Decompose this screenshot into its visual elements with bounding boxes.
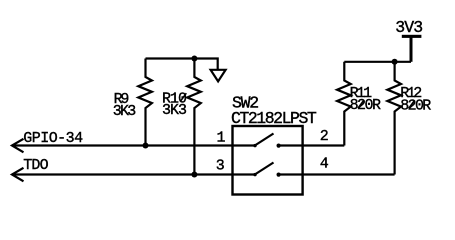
svg-text:3: 3 [216, 158, 225, 175]
svg-text:GPIO-34: GPIO-34 [23, 130, 83, 147]
svg-text:4: 4 [320, 156, 329, 173]
svg-text:3K3: 3K3 [162, 102, 187, 119]
svg-text:3V3: 3V3 [395, 18, 423, 37]
svg-text:CT2182LPST: CT2182LPST [231, 109, 317, 128]
svg-text:820R: 820R [350, 97, 381, 114]
svg-text:820R: 820R [400, 97, 431, 114]
svg-text:TDO: TDO [23, 157, 48, 174]
svg-text:2: 2 [320, 128, 329, 145]
svg-text:3K3: 3K3 [113, 103, 137, 120]
svg-text:1: 1 [217, 129, 226, 146]
